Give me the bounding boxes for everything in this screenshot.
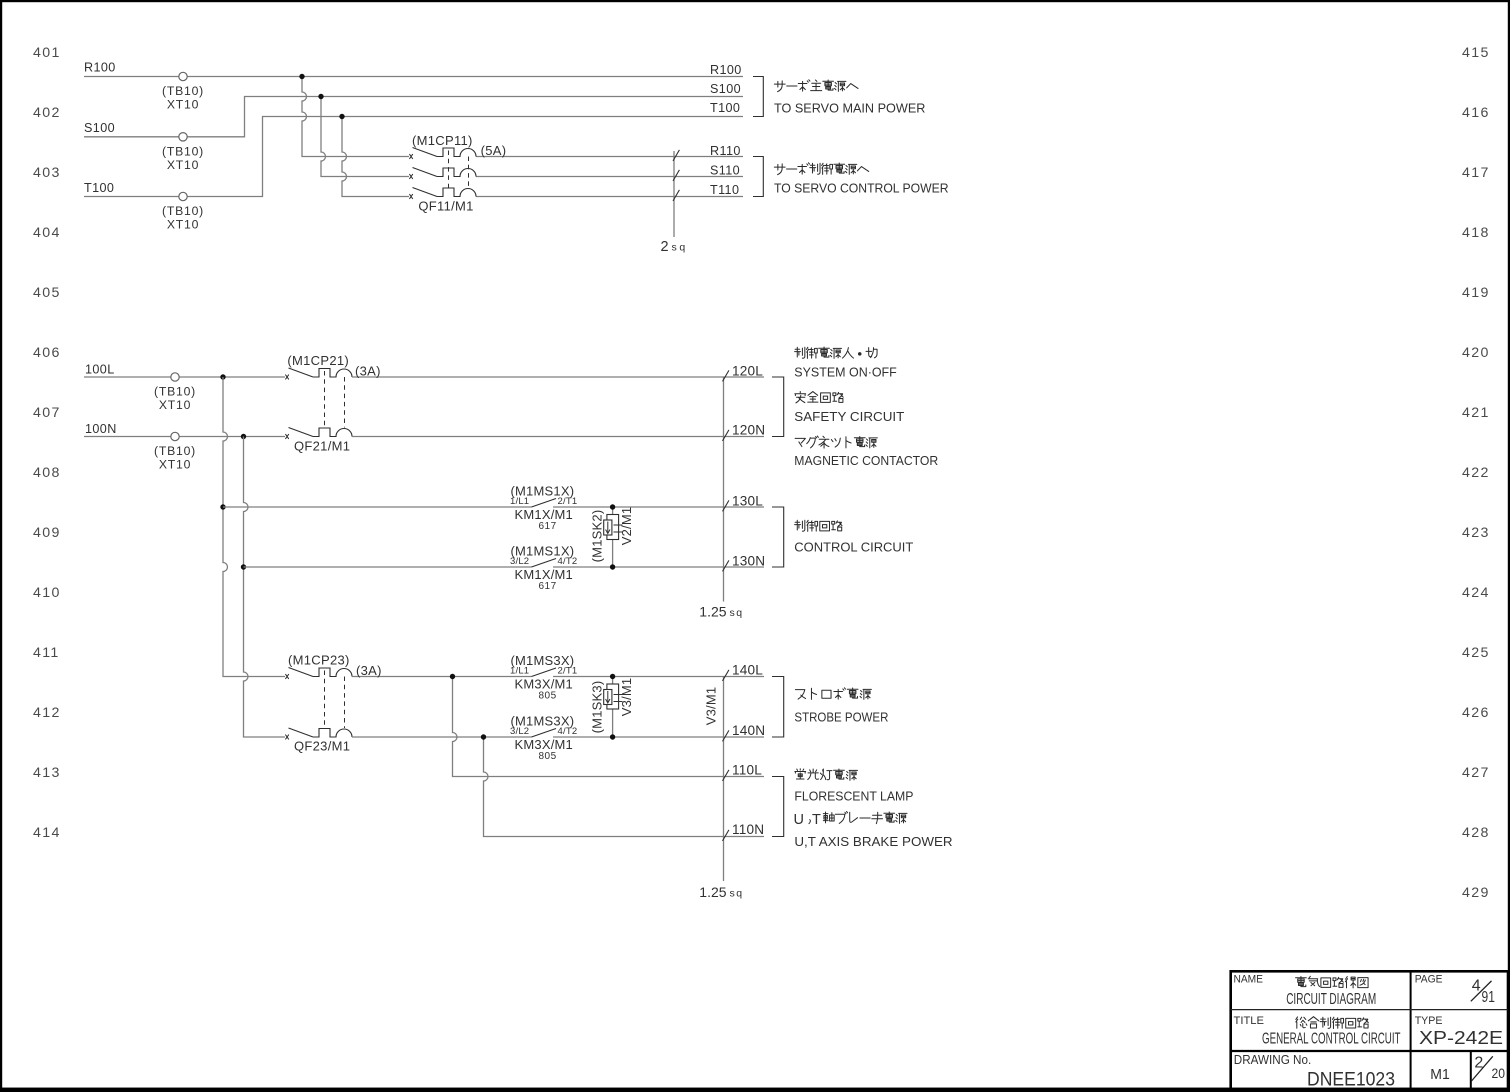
svg-text:(5A): (5A) xyxy=(481,143,507,158)
svg-text:424: 424 xyxy=(1462,585,1490,601)
svg-text:2/T1: 2/T1 xyxy=(558,666,578,677)
svg-text:sq: sq xyxy=(672,242,688,254)
svg-text:T100: T100 xyxy=(84,181,114,195)
svg-text:NAME: NAME xyxy=(1234,974,1264,986)
svg-text:401: 401 xyxy=(33,45,61,61)
svg-text:(M1SK2): (M1SK2) xyxy=(590,510,605,563)
svg-text:(M1CP11): (M1CP11) xyxy=(412,133,473,148)
svg-text:2: 2 xyxy=(661,239,669,255)
svg-text:(3A): (3A) xyxy=(355,364,381,379)
svg-text:120L: 120L xyxy=(732,364,763,379)
svg-text:406: 406 xyxy=(33,345,61,361)
svg-text:100L: 100L xyxy=(85,363,115,377)
svg-text:T: T xyxy=(812,812,821,828)
svg-text:R100: R100 xyxy=(84,61,116,75)
svg-text:V3/M1: V3/M1 xyxy=(619,678,634,717)
svg-text:(TB10): (TB10) xyxy=(162,145,204,159)
svg-text:XT10: XT10 xyxy=(159,458,191,472)
svg-text:415: 415 xyxy=(1462,45,1490,61)
svg-text:413: 413 xyxy=(33,765,61,781)
svg-text:STROBE POWER: STROBE POWER xyxy=(794,710,888,725)
svg-text:1.25: 1.25 xyxy=(699,604,726,620)
svg-text:FLORESCENT LAMP: FLORESCENT LAMP xyxy=(794,789,913,804)
svg-text:V2/M1: V2/M1 xyxy=(619,507,634,546)
svg-text:418: 418 xyxy=(1462,225,1490,241)
svg-text:(TB10): (TB10) xyxy=(162,204,204,218)
svg-text:QF23/M1: QF23/M1 xyxy=(294,739,350,754)
svg-text:TO SERVO MAIN POWER: TO SERVO MAIN POWER xyxy=(774,101,925,116)
svg-text:sq: sq xyxy=(730,888,744,900)
svg-text:120N: 120N xyxy=(732,423,765,438)
svg-text:4/T2: 4/T2 xyxy=(558,556,578,567)
svg-text:SAFETY CIRCUIT: SAFETY CIRCUIT xyxy=(794,409,904,424)
svg-text:100N: 100N xyxy=(85,422,117,436)
svg-text:617: 617 xyxy=(539,581,557,592)
svg-text:MAGNETIC CONTACTOR: MAGNETIC CONTACTOR xyxy=(794,453,938,468)
svg-text:QF21/M1: QF21/M1 xyxy=(294,439,350,454)
svg-text:TYPE: TYPE xyxy=(1415,1015,1443,1027)
svg-text:sq: sq xyxy=(730,607,744,619)
svg-text:(3A): (3A) xyxy=(356,663,382,678)
svg-text:4/T2: 4/T2 xyxy=(558,726,578,737)
svg-text:GENERAL CONTROL CIRCUIT: GENERAL CONTROL CIRCUIT xyxy=(1262,1030,1401,1047)
svg-text:130L: 130L xyxy=(732,494,763,509)
svg-text:1/L1: 1/L1 xyxy=(510,496,529,507)
svg-text:CONTROL CIRCUIT: CONTROL CIRCUIT xyxy=(794,540,913,555)
svg-text:R110: R110 xyxy=(710,144,741,158)
svg-text:405: 405 xyxy=(33,285,61,301)
svg-text:T100: T100 xyxy=(710,101,740,115)
svg-text:(TB10): (TB10) xyxy=(154,444,196,458)
svg-text:402: 402 xyxy=(33,105,61,121)
svg-text:3/L2: 3/L2 xyxy=(510,726,529,737)
svg-text:CIRCUIT DIAGRAM: CIRCUIT DIAGRAM xyxy=(1286,991,1376,1008)
svg-text:409: 409 xyxy=(33,525,61,541)
svg-text:426: 426 xyxy=(1462,705,1490,721)
svg-text:S110: S110 xyxy=(710,163,740,177)
svg-text:421: 421 xyxy=(1462,405,1490,421)
svg-text:(TB10): (TB10) xyxy=(154,385,196,399)
svg-text:PAGE: PAGE xyxy=(1415,974,1443,986)
svg-text:KM3X/M1: KM3X/M1 xyxy=(515,677,573,692)
svg-text:KM1X/M1: KM1X/M1 xyxy=(515,567,573,582)
svg-text:DRAWING No.: DRAWING No. xyxy=(1234,1052,1311,1067)
svg-text:422: 422 xyxy=(1462,465,1490,481)
svg-text:412: 412 xyxy=(33,705,61,721)
svg-text:2/T1: 2/T1 xyxy=(558,496,578,507)
svg-text:140L: 140L xyxy=(732,663,763,678)
svg-text:1/L1: 1/L1 xyxy=(510,666,529,677)
svg-text:1.25: 1.25 xyxy=(699,884,726,900)
svg-text:U,T AXIS BRAKE POWER: U,T AXIS BRAKE POWER xyxy=(794,834,952,849)
svg-text:V3/M1: V3/M1 xyxy=(704,687,719,726)
svg-text:R100: R100 xyxy=(710,63,742,77)
svg-text:414: 414 xyxy=(33,825,61,841)
svg-text:91: 91 xyxy=(1482,989,1495,1006)
svg-text:T110: T110 xyxy=(710,183,739,197)
svg-text:410: 410 xyxy=(33,585,61,601)
svg-text:20: 20 xyxy=(1492,1066,1506,1081)
svg-text:416: 416 xyxy=(1462,105,1490,121)
svg-text:TITLE: TITLE xyxy=(1234,1015,1265,1027)
svg-text:420: 420 xyxy=(1462,345,1490,361)
svg-text:428: 428 xyxy=(1462,825,1490,841)
svg-text:XT10: XT10 xyxy=(167,158,199,172)
svg-text:110L: 110L xyxy=(732,763,762,778)
svg-text:M1: M1 xyxy=(1430,1067,1450,1083)
svg-text:TO SERVO CONTROL POWER: TO SERVO CONTROL POWER xyxy=(774,181,949,196)
svg-text:(M1CP21): (M1CP21) xyxy=(287,353,349,368)
svg-text:S100: S100 xyxy=(84,121,115,135)
svg-text:KM1X/M1: KM1X/M1 xyxy=(515,507,573,522)
svg-text:617: 617 xyxy=(539,521,557,532)
svg-text:429: 429 xyxy=(1462,885,1490,901)
svg-text:417: 417 xyxy=(1462,165,1490,181)
svg-text:QF11/M1: QF11/M1 xyxy=(418,199,473,214)
svg-text:(M1CP23): (M1CP23) xyxy=(288,653,350,668)
svg-text:407: 407 xyxy=(33,405,61,421)
svg-text:805: 805 xyxy=(539,751,557,762)
svg-text:(TB10): (TB10) xyxy=(162,84,204,98)
svg-text:403: 403 xyxy=(33,165,61,181)
svg-text:140N: 140N xyxy=(732,723,765,738)
svg-text:KM3X/M1: KM3X/M1 xyxy=(515,737,573,752)
svg-text:S100: S100 xyxy=(710,82,741,96)
svg-text:DNEE1023: DNEE1023 xyxy=(1307,1070,1395,1091)
svg-text:3/L2: 3/L2 xyxy=(510,556,529,567)
svg-text:SYSTEM ON·OFF: SYSTEM ON·OFF xyxy=(794,364,897,379)
svg-text:805: 805 xyxy=(539,691,557,702)
svg-text:404: 404 xyxy=(33,225,61,241)
svg-text:408: 408 xyxy=(33,465,61,481)
svg-text:427: 427 xyxy=(1462,765,1490,781)
svg-text:411: 411 xyxy=(33,645,60,661)
svg-text:110N: 110N xyxy=(732,822,764,837)
svg-text:XT10: XT10 xyxy=(159,398,191,412)
svg-text:XP-242E: XP-242E xyxy=(1419,1028,1503,1048)
svg-text:130N: 130N xyxy=(732,554,765,569)
svg-text:XT10: XT10 xyxy=(167,218,199,232)
svg-text:XT10: XT10 xyxy=(167,98,199,112)
svg-text:(M1SK3): (M1SK3) xyxy=(590,681,605,734)
svg-text:419: 419 xyxy=(1462,285,1490,301)
svg-text:425: 425 xyxy=(1462,645,1490,661)
svg-text:423: 423 xyxy=(1462,525,1490,541)
svg-text:U: U xyxy=(794,812,804,828)
